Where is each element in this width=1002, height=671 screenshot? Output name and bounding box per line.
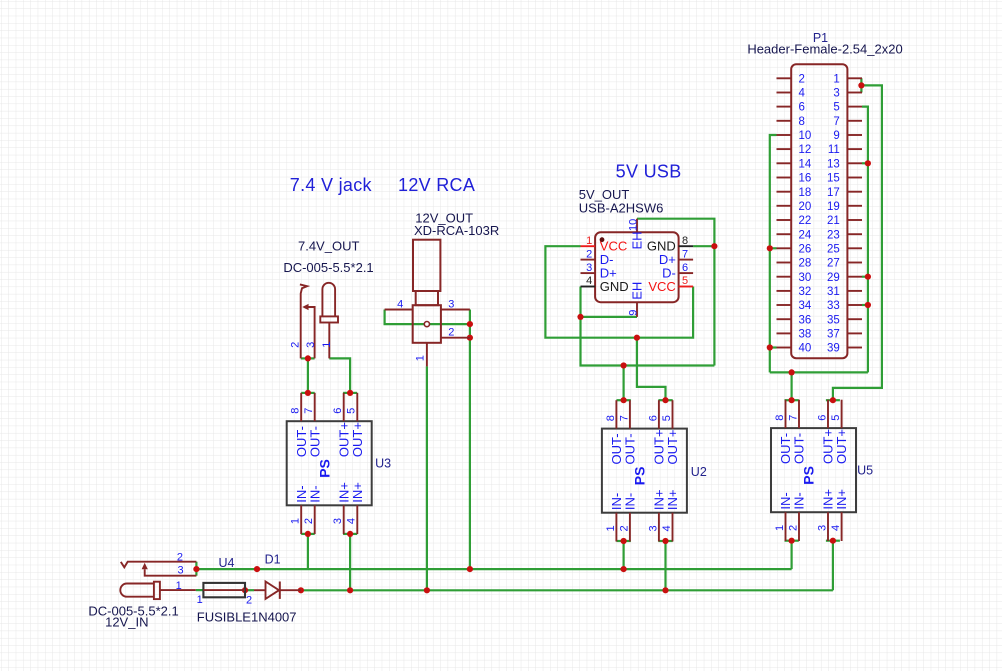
svg-text:4: 4 bbox=[586, 275, 592, 287]
svg-text:3: 3 bbox=[816, 525, 828, 531]
P1 pin 1 (right row 1) bbox=[847, 77, 862, 79]
junction top bus segment bbox=[254, 566, 260, 572]
svg-text:11: 11 bbox=[828, 144, 840, 156]
svg-text:VCC: VCC bbox=[648, 279, 675, 294]
svg-text:4: 4 bbox=[346, 518, 358, 524]
junction U2 IN- bbox=[621, 538, 627, 544]
svg-text:26: 26 bbox=[799, 243, 812, 255]
svg-text:U4: U4 bbox=[219, 556, 235, 570]
P1 pin 28 (left row 14) bbox=[777, 262, 792, 264]
USB pin 6 (right) bbox=[679, 272, 694, 274]
P1 pin 12 (left row 6) bbox=[777, 148, 792, 150]
wire USB GND route bbox=[581, 317, 715, 366]
U5 pin 8 (top) bbox=[785, 400, 787, 428]
svg-text:1: 1 bbox=[774, 525, 786, 531]
svg-text:8: 8 bbox=[290, 408, 302, 414]
P1 pin 2 (left row 1) bbox=[777, 77, 792, 79]
P1 pin 9 (right row 5) bbox=[847, 134, 862, 136]
junction U2 IN- / top bus bbox=[621, 566, 627, 572]
junction U3 IN- bbox=[305, 531, 311, 537]
U4 jack barrel dome bbox=[120, 583, 154, 596]
USB pin 7 (right) bbox=[679, 259, 694, 261]
svg-text:EH: EH bbox=[630, 282, 645, 300]
P1 pin 10 (left row 5) bbox=[777, 134, 792, 136]
svg-text:3: 3 bbox=[332, 518, 344, 524]
svg-text:2: 2 bbox=[303, 518, 315, 524]
svg-text:35: 35 bbox=[827, 314, 840, 326]
wire U3 OUT- pin tie bbox=[301, 392, 315, 394]
junction P1 pin40 bbox=[767, 344, 773, 350]
wire P1 pin5 vertical bbox=[862, 107, 868, 373]
7.4V jack pin 2 spring contact bbox=[300, 284, 307, 358]
svg-text:27: 27 bbox=[827, 258, 840, 270]
wire U2 IN+ drop bbox=[664, 541, 666, 590]
svg-text:2: 2 bbox=[246, 595, 252, 607]
P1 pin 11 (right row 6) bbox=[847, 148, 862, 150]
U3 pin 1 (bottom) bbox=[300, 505, 302, 534]
svg-text:3: 3 bbox=[448, 298, 454, 310]
P1 pin 5 (right row 3) bbox=[847, 106, 862, 108]
svg-text:3: 3 bbox=[647, 525, 659, 531]
svg-text:4: 4 bbox=[830, 525, 842, 531]
P1 pin 27 (right row 14) bbox=[847, 262, 862, 264]
junction U5 IN+ bbox=[830, 538, 836, 544]
svg-text:14: 14 bbox=[799, 158, 812, 170]
junction U2 OUT- bbox=[621, 397, 627, 403]
svg-text:1: 1 bbox=[605, 525, 617, 531]
U5 pin 6 (top) bbox=[827, 400, 829, 428]
junction P1 pin26 bbox=[767, 245, 773, 251]
junction U3 OUT- bbox=[305, 390, 311, 396]
svg-text:17: 17 bbox=[827, 187, 840, 199]
svg-text:3: 3 bbox=[833, 88, 839, 100]
svg-text:9: 9 bbox=[627, 310, 639, 316]
svg-text:1: 1 bbox=[415, 355, 427, 361]
svg-text:1: 1 bbox=[833, 73, 839, 85]
svg-text:19: 19 bbox=[827, 201, 840, 213]
svg-text:39: 39 bbox=[827, 343, 840, 355]
P1 pin 15 (right row 8) bbox=[847, 177, 862, 179]
diode D1 cathode bar bbox=[279, 582, 281, 599]
junction P1 pin33 bbox=[865, 302, 871, 308]
wire U4 jack pin2-pin3 tie bbox=[195, 562, 197, 576]
svg-text:XD-RCA-103R: XD-RCA-103R bbox=[414, 223, 499, 238]
RCA pin 3 lead bbox=[441, 309, 470, 311]
wire U2 OUT+ pin tie bbox=[658, 399, 672, 401]
P1 pin 31 (right row 16) bbox=[847, 290, 862, 292]
U2 pin 7 (top) bbox=[629, 400, 631, 428]
wire fuse to diode link bbox=[245, 589, 254, 591]
RCA pin 2 lead bbox=[441, 337, 470, 339]
svg-text:IN-: IN- bbox=[792, 492, 807, 509]
wire U5 IN+ drop bbox=[832, 541, 834, 591]
U5 pin 7 (top) bbox=[798, 400, 800, 428]
P1 pin 6 (left row 3) bbox=[777, 106, 792, 108]
connector P1 Header-Female-2.54_2x20 body bbox=[791, 64, 847, 358]
connector USB-A2HSW6 body bbox=[595, 232, 679, 302]
svg-text:8: 8 bbox=[799, 116, 805, 128]
svg-text:3: 3 bbox=[305, 342, 317, 348]
junction P1 pin29 bbox=[865, 274, 871, 280]
wire bottom bus +12V net bbox=[301, 589, 833, 591]
svg-text:IN+: IN+ bbox=[350, 482, 365, 503]
svg-text:29: 29 bbox=[827, 272, 840, 284]
USB pin 1 (left) bbox=[581, 245, 596, 247]
svg-text:6: 6 bbox=[647, 415, 659, 421]
wire U3 IN- drop bbox=[307, 534, 309, 569]
wire P1 pin29 link bbox=[862, 276, 868, 278]
svg-text:5: 5 bbox=[682, 275, 688, 287]
P1 pin 4 (left row 2) bbox=[777, 92, 792, 94]
svg-text:OUT+: OUT+ bbox=[665, 429, 680, 464]
P1 pin 33 (right row 17) bbox=[847, 304, 862, 306]
wire 7.4V jack sleeve to U3 OUT- bbox=[307, 358, 309, 393]
RCA center contact circle bbox=[424, 322, 429, 327]
P1 pin 17 (right row 9) bbox=[847, 191, 862, 193]
svg-text:5: 5 bbox=[346, 408, 358, 414]
U3 pin 3 (bottom) bbox=[343, 505, 345, 534]
svg-text:3: 3 bbox=[177, 564, 183, 576]
svg-text:U5: U5 bbox=[857, 463, 873, 477]
svg-text:GND: GND bbox=[600, 279, 629, 294]
junction U2 IN+ bbox=[662, 538, 668, 544]
svg-text:U2: U2 bbox=[691, 465, 707, 479]
svg-text:FUSIBLE1N4007: FUSIBLE1N4007 bbox=[197, 610, 297, 625]
P1 pin 18 (left row 9) bbox=[777, 191, 792, 193]
wire P1 to U5 OUT- bbox=[790, 372, 792, 400]
RCA body bbox=[413, 305, 441, 343]
svg-text:36: 36 bbox=[799, 314, 812, 326]
wire U5 OUT- pin tie bbox=[785, 399, 799, 401]
svg-text:IN+: IN+ bbox=[834, 489, 849, 510]
svg-text:30: 30 bbox=[799, 272, 812, 284]
P1 pin 3 (right row 2) bbox=[847, 92, 862, 94]
RCA pin 4 lead bbox=[385, 309, 413, 311]
wire 7.4V jack tip to U3 OUT+ bbox=[329, 358, 350, 393]
DC-DC module U3 body bbox=[287, 421, 372, 505]
U2 pin 2 (bottom) bbox=[629, 513, 631, 542]
P1 pin 13 (right row 7) bbox=[847, 162, 862, 164]
svg-text:22: 22 bbox=[799, 215, 812, 227]
svg-text:OUT-: OUT- bbox=[792, 433, 807, 464]
svg-text:34: 34 bbox=[799, 300, 812, 312]
junction 7.4V jack sleeve bbox=[305, 355, 311, 361]
svg-text:2: 2 bbox=[177, 552, 183, 564]
wire USB pin8 link bbox=[693, 245, 714, 247]
svg-text:4: 4 bbox=[799, 88, 806, 100]
svg-text:5: 5 bbox=[661, 415, 673, 421]
svg-text:7.4V_OUT: 7.4V_OUT bbox=[298, 238, 359, 253]
junction U2 OUT+ bbox=[662, 397, 668, 403]
svg-text:32: 32 bbox=[799, 286, 812, 298]
svg-text:7.4 V jack: 7.4 V jack bbox=[290, 175, 373, 195]
svg-text:5: 5 bbox=[830, 415, 842, 421]
svg-text:6: 6 bbox=[799, 102, 805, 114]
svg-text:38: 38 bbox=[799, 329, 812, 341]
7.4V jack pin 1 lead bbox=[328, 323, 330, 359]
svg-text:3: 3 bbox=[586, 262, 592, 274]
svg-text:5: 5 bbox=[833, 102, 839, 114]
wire P1 pin1-pin3 tie bbox=[860, 78, 862, 92]
P1 pin 7 (right row 4) bbox=[847, 120, 862, 122]
junction P1 pin1 bbox=[858, 82, 864, 88]
svg-text:24: 24 bbox=[799, 229, 812, 241]
wire P1 pin40 link bbox=[770, 346, 777, 348]
svg-text:2: 2 bbox=[618, 525, 630, 531]
P1 pin 37 (right row 19) bbox=[847, 332, 862, 334]
svg-text:1: 1 bbox=[197, 594, 203, 606]
P1 pin 25 (right row 13) bbox=[847, 247, 862, 249]
wire USB VCC route pin1 to pin5 bbox=[545, 246, 693, 338]
P1 pin 23 (right row 12) bbox=[847, 233, 862, 235]
wire P1 pin10 left vertical bbox=[770, 135, 777, 372]
U5 pin 5 (top) bbox=[841, 400, 843, 428]
U2 pin 3 (bottom) bbox=[658, 513, 660, 542]
svg-text:OUT+: OUT+ bbox=[350, 422, 365, 457]
svg-text:OUT-: OUT- bbox=[623, 433, 638, 464]
junction fuse pin2 bbox=[242, 587, 248, 593]
svg-text:EH: EH bbox=[630, 231, 645, 249]
svg-text:1: 1 bbox=[176, 580, 182, 592]
junction USB VCC bbox=[634, 335, 640, 341]
DC-DC module U5 body bbox=[771, 428, 856, 512]
U5 pin 2 (bottom) bbox=[798, 512, 800, 541]
svg-text:6: 6 bbox=[816, 415, 828, 421]
P1 pin 34 (left row 17) bbox=[777, 304, 792, 306]
wire 7.4V jack sleeve tie bbox=[301, 357, 315, 359]
svg-text:7: 7 bbox=[303, 408, 315, 414]
U5 pin 3 (bottom) bbox=[827, 512, 829, 541]
U2 pin 1 (bottom) bbox=[615, 513, 617, 542]
wire U3 OUT+ pin tie bbox=[343, 392, 357, 394]
svg-text:37: 37 bbox=[827, 329, 840, 341]
svg-text:9: 9 bbox=[833, 130, 839, 142]
svg-text:4: 4 bbox=[661, 525, 673, 531]
svg-text:OUT+: OUT+ bbox=[834, 429, 849, 464]
junction USB GND bbox=[621, 362, 627, 368]
svg-text:2: 2 bbox=[799, 73, 805, 85]
diode D1 anode lead bbox=[254, 589, 266, 591]
U2 pin 8 (top) bbox=[615, 400, 617, 428]
svg-text:PS: PS bbox=[316, 459, 332, 478]
wire U2 OUT- pin tie bbox=[617, 399, 631, 401]
P1 pin 20 (left row 10) bbox=[777, 205, 792, 207]
svg-text:7: 7 bbox=[833, 116, 839, 128]
svg-text:2: 2 bbox=[290, 342, 302, 348]
svg-text:PS: PS bbox=[801, 466, 817, 485]
svg-text:IN-: IN- bbox=[307, 485, 322, 502]
P1 pin 26 (left row 13) bbox=[777, 247, 792, 249]
DC-DC module U2 body bbox=[602, 429, 687, 513]
U3 pin 5 (top) bbox=[356, 393, 358, 421]
U4 jack pin 3 switch arrow bbox=[142, 563, 148, 570]
svg-text:23: 23 bbox=[827, 229, 840, 241]
P1 pin 24 (left row 12) bbox=[777, 233, 792, 235]
svg-text:6: 6 bbox=[332, 408, 344, 414]
svg-text:U3: U3 bbox=[375, 456, 391, 470]
P1 pin 39 (right row 20) bbox=[847, 347, 862, 349]
fuse element line bbox=[203, 589, 245, 591]
U2 pin 5 (top) bbox=[672, 400, 674, 428]
svg-text:1: 1 bbox=[586, 235, 592, 247]
junction RCA pin2 bbox=[467, 335, 473, 341]
P1 pin 16 (left row 8) bbox=[777, 177, 792, 179]
diode D1 triangle bbox=[266, 582, 280, 599]
USB pin 4 (left) bbox=[581, 286, 596, 288]
P1 pin 8 (left row 4) bbox=[777, 120, 792, 122]
svg-text:40: 40 bbox=[799, 343, 812, 355]
P1 pin 14 (left row 7) bbox=[777, 162, 792, 164]
wire P1 pin26 link bbox=[770, 247, 777, 249]
RCA neck bbox=[416, 291, 438, 305]
svg-text:7: 7 bbox=[618, 415, 630, 421]
U2 pin 6 (top) bbox=[658, 400, 660, 428]
junction U3 IN+ bbox=[347, 531, 353, 537]
connector XD-RCA-103R barrel bbox=[413, 240, 440, 291]
junction diode cathode / bottom bus bbox=[298, 587, 304, 593]
P1 pin 30 (left row 15) bbox=[777, 276, 792, 278]
junction U2 IN+ / bottom bus bbox=[662, 587, 668, 593]
wire RCA shield drop bbox=[469, 310, 471, 570]
junction U3 IN+ / bottom bus bbox=[347, 587, 353, 593]
wire U2 IN- pin tie bbox=[617, 540, 631, 542]
wire U5 OUT+ pin tie bbox=[826, 399, 840, 401]
wire U5 IN- pin tie bbox=[785, 540, 799, 542]
wire P1 pin13 link bbox=[862, 162, 868, 164]
USB pin1 marker dot bbox=[600, 237, 605, 242]
U4 jack pin 2 spring contact bbox=[121, 562, 197, 568]
svg-text:Header-Female-2.54_2x20: Header-Female-2.54_2x20 bbox=[747, 41, 902, 56]
USB pin 9 (bottom) bbox=[636, 302, 638, 317]
svg-text:4: 4 bbox=[397, 298, 403, 310]
wire P1 pin1 to U5 OUT+ bbox=[833, 85, 882, 400]
7.4V jack flange bbox=[320, 316, 338, 322]
svg-text:8: 8 bbox=[682, 235, 688, 247]
svg-text:12V_IN: 12V_IN bbox=[105, 615, 148, 630]
svg-text:IN+: IN+ bbox=[665, 490, 680, 511]
P1 pin 29 (right row 15) bbox=[847, 276, 862, 278]
wire U3 IN+ drop bbox=[349, 534, 351, 590]
svg-text:OUT-: OUT- bbox=[307, 426, 322, 457]
wire VCC to U2 OUT+ bbox=[637, 338, 666, 401]
U5 pin 1 (bottom) bbox=[785, 512, 787, 541]
svg-text:7: 7 bbox=[787, 415, 799, 421]
svg-text:18: 18 bbox=[799, 187, 812, 199]
U2 pin 4 (bottom) bbox=[672, 513, 674, 542]
wire P1 bottom link bbox=[770, 371, 868, 373]
diode D1 cathode lead bbox=[280, 589, 301, 591]
svg-text:12: 12 bbox=[799, 144, 812, 156]
svg-text:21: 21 bbox=[827, 215, 840, 227]
USB pin 10 (top) bbox=[636, 219, 638, 233]
wire U3 IN+ pin tie bbox=[343, 533, 357, 535]
svg-text:PS: PS bbox=[632, 467, 648, 486]
svg-text:5V USB: 5V USB bbox=[616, 161, 682, 181]
svg-text:8: 8 bbox=[605, 415, 617, 421]
P1 pin 19 (right row 10) bbox=[847, 205, 862, 207]
P1 pin 40 (left row 20) bbox=[777, 347, 792, 349]
RCA pin 1 lead bbox=[426, 343, 428, 367]
wire jack to fuse link bbox=[196, 589, 204, 591]
U3 pin 2 (bottom) bbox=[314, 505, 316, 534]
svg-text:8: 8 bbox=[774, 415, 786, 421]
svg-text:DC-005-5.5*2.1: DC-005-5.5*2.1 bbox=[283, 260, 373, 275]
P1 pin 22 (left row 11) bbox=[777, 219, 792, 221]
svg-text:31: 31 bbox=[827, 286, 840, 298]
P1 pin 35 (right row 18) bbox=[847, 318, 862, 320]
P1 pin 21 (right row 11) bbox=[847, 219, 862, 221]
svg-text:12V RCA: 12V RCA bbox=[398, 175, 475, 195]
wire USB pin9 link bbox=[581, 316, 638, 318]
svg-text:6: 6 bbox=[682, 262, 688, 274]
7.4V jack pin 3 switch arrow bbox=[302, 304, 308, 310]
svg-text:1: 1 bbox=[290, 518, 302, 524]
svg-text:D1: D1 bbox=[265, 553, 281, 567]
USB pin 3 (left) bbox=[581, 272, 596, 274]
svg-text:15: 15 bbox=[827, 173, 840, 185]
U3 pin 8 (top) bbox=[300, 393, 302, 421]
svg-text:USB-A2HSW6: USB-A2HSW6 bbox=[579, 201, 664, 216]
wire P1 pin33 link bbox=[862, 304, 868, 306]
svg-text:2: 2 bbox=[586, 248, 592, 260]
svg-text:7: 7 bbox=[682, 248, 688, 260]
svg-text:2: 2 bbox=[787, 525, 799, 531]
wire U2 IN+ pin tie bbox=[658, 540, 672, 542]
wire U2 IN- drop bbox=[622, 541, 624, 569]
wire GND to U2 OUT- bbox=[622, 366, 624, 401]
svg-text:10: 10 bbox=[627, 219, 639, 231]
wire RCA pin4 route bbox=[385, 310, 470, 325]
junction USB pin4/pin9 bbox=[577, 314, 583, 320]
wire U5 IN+ pin tie bbox=[826, 540, 840, 542]
USB pin 8 (right) bbox=[679, 245, 694, 247]
junction RCA shield / top bus bbox=[467, 566, 473, 572]
junction U5 OUT+ bbox=[830, 397, 836, 403]
wire USB pin10 GND route bbox=[637, 219, 714, 366]
junction jack pin3 / top bus bbox=[193, 566, 199, 572]
svg-text:16: 16 bbox=[799, 173, 812, 185]
wire USB pin4 GND drop bbox=[579, 287, 581, 317]
junction P1 bottom / U5 OUT- bbox=[789, 369, 795, 375]
P1 pin 38 (left row 19) bbox=[777, 332, 792, 334]
U3 pin 7 (top) bbox=[314, 393, 316, 421]
junction RCA pin1 / bottom bus bbox=[424, 587, 430, 593]
7.4V jack barrel dome bbox=[322, 283, 335, 317]
U5 pin 4 (bottom) bbox=[841, 512, 843, 541]
svg-text:25: 25 bbox=[827, 243, 840, 255]
svg-text:IN-: IN- bbox=[623, 493, 638, 510]
USB pin 5 (right) bbox=[679, 286, 694, 288]
junction U5 IN- bbox=[789, 538, 795, 544]
U4 jack pin 1 lead bbox=[160, 589, 196, 591]
svg-text:10: 10 bbox=[799, 130, 812, 142]
U4 jack flange bbox=[154, 582, 160, 599]
junction RCA pin4/pin3 bbox=[467, 321, 473, 327]
P1 pin 36 (left row 18) bbox=[777, 318, 792, 320]
svg-text:2: 2 bbox=[448, 326, 454, 338]
svg-text:20: 20 bbox=[799, 201, 812, 213]
junction USB pin8 bbox=[711, 243, 717, 249]
U3 pin 4 (bottom) bbox=[356, 505, 358, 534]
junction U3 OUT+ bbox=[347, 390, 353, 396]
wire U3 IN- pin tie bbox=[301, 533, 315, 535]
wire U5 IN- drop bbox=[790, 541, 792, 569]
P1 pin 32 (left row 16) bbox=[777, 290, 792, 292]
USB pin 2 (left) bbox=[581, 259, 596, 261]
wire RCA pin1 drop bbox=[426, 366, 428, 590]
svg-text:1: 1 bbox=[321, 342, 333, 348]
fuse F1 FUSIBLE body bbox=[203, 583, 245, 597]
